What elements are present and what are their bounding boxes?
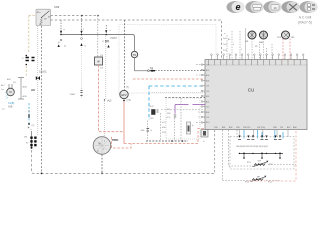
svg-text:A5: A5	[228, 38, 230, 41]
connector bowtie	[36, 76, 40, 80]
svg-text:(7): (7)	[126, 86, 129, 89]
wire branch x160.5	[160, 113, 162, 141]
svg-text:C08: C08	[273, 127, 276, 129]
svg-text:A6: A6	[31, 88, 35, 92]
svg-text:C04: C04	[214, 127, 217, 129]
svg-text:CU: CU	[248, 88, 255, 93]
svg-text:e: e	[235, 2, 240, 12]
wire red top feed	[133, 78, 205, 80]
connector pair upper-left	[22, 55, 35, 66]
svg-text:4: 4	[233, 44, 234, 46]
wire CU ground return	[214, 130, 216, 173]
CU bottom pin stubs	[240, 130, 289, 138]
svg-text:PC4: PC4	[268, 182, 272, 184]
svg-text:(P1): (P1)	[167, 117, 171, 119]
labels near CU feed	[223, 38, 227, 52]
svg-text:(O): (O)	[100, 55, 103, 57]
svg-text:B03: B03	[206, 80, 209, 82]
svg-text:C99: C99	[54, 5, 60, 9]
wire ground bus bottom	[32, 150, 215, 173]
thermistor MP	[245, 176, 272, 184]
svg-text:(3): (3)	[13, 82, 16, 84]
wire dark dashed mid to CU	[165, 97, 205, 99]
wire branch x181	[180, 98, 182, 141]
junction drop x61	[58, 20, 66, 47]
toolbar button e	[227, 1, 245, 13]
sensor U03 box	[201, 130, 208, 144]
node EPV out	[123, 100, 125, 102]
svg-text:PC2: PC2	[269, 164, 273, 166]
svg-text:TN: TN	[133, 53, 137, 57]
svg-text:V59: V59	[258, 161, 261, 163]
wire fan to ground bus	[101, 155, 103, 173]
svg-text:C05: C05	[206, 117, 209, 119]
svg-text:(A)5: (A)5	[107, 100, 112, 103]
svg-text:(2): (2)	[32, 125, 35, 127]
svg-text:C09 C12: C09 C12	[243, 127, 250, 129]
svg-text:A.C Grill: A.C Grill	[299, 16, 312, 20]
svg-text:M: M	[99, 143, 101, 146]
wire grey dotted to fan	[105, 36, 107, 99]
svg-text:5w1: 5w1	[223, 38, 226, 40]
svg-text:A1A: A1A	[23, 86, 28, 89]
CU bottom pin labels	[214, 127, 296, 129]
toolbar button print	[246, 1, 264, 13]
CU control unit box U1	[205, 60, 307, 130]
wire thermistor leads	[222, 130, 296, 181]
dotted box mid	[166, 98, 200, 139]
svg-text:A01: A01	[206, 100, 209, 103]
svg-text:Tw0: Tw0	[223, 44, 226, 46]
wire mid bottom bus	[146, 140, 188, 142]
svg-text:A1B: A1B	[23, 95, 28, 98]
svg-text:B05: B05	[206, 70, 209, 72]
motor G1	[245, 31, 256, 43]
svg-text:B08: B08	[293, 127, 296, 129]
svg-text:(7)6: (7)6	[127, 99, 132, 102]
fuse F30 junction	[103, 25, 118, 48]
relay W box	[95, 16, 104, 70]
solenoid valve EPV	[120, 90, 128, 98]
svg-text:C07 (2 b): C07 (2 b)	[257, 127, 265, 129]
svg-text:(2)(A)4: (2)(A)4	[110, 37, 118, 40]
harness dashed box	[230, 137, 294, 170]
toolbar button close	[282, 1, 300, 13]
motor G2	[259, 31, 268, 44]
wire dark dashed 63 to CU	[150, 69, 206, 72]
capacitor frame A1	[18, 78, 27, 100]
svg-text:A04: A04	[206, 74, 209, 77]
wire G1 G2 drops	[252, 39, 272, 60]
node 63	[148, 70, 150, 72]
svg-text:T-B07: T-B07	[70, 94, 77, 96]
svg-text:C06: C06	[236, 127, 239, 129]
svg-text:M: M	[9, 90, 11, 94]
CU bottom cyan stubs	[244, 130, 283, 139]
wire dotted frame	[119, 25, 216, 94]
wire stubs into CU left pins	[196, 65, 205, 123]
svg-text:19: 19	[273, 6, 277, 10]
wire cyan thick to CU	[149, 85, 205, 87]
CU top pin row	[205, 64, 307, 66]
relay K1	[36, 9, 51, 26]
svg-text:M5: M5	[255, 46, 258, 48]
svg-text:PRB4: PRB4	[112, 139, 119, 142]
svg-text:PC3: PC3	[245, 182, 249, 184]
toolbar button list	[300, 1, 318, 13]
svg-text:B02: B02	[229, 127, 232, 129]
svg-text:(H): (H)	[24, 137, 27, 139]
svg-text:C02: C02	[206, 91, 209, 93]
svg-text:(RA27-5): (RA27-5)	[298, 21, 312, 25]
svg-text:C11: C11	[280, 127, 283, 129]
svg-text:A/C: A/C	[1, 84, 5, 87]
wire red EPV to CU via bottom	[124, 101, 205, 144]
svg-text:C06 2(O)8 C06 C05 2(O)3 2(O): C06 2(O)8 C06 C05 2(O)3 2(O)1 (O)2	[236, 146, 268, 148]
wire dashed supply to EPV	[124, 20, 126, 90]
condenser fan motor PRB4	[93, 137, 119, 155]
resistor N52	[148, 106, 159, 141]
wire dotted x81	[81, 47, 83, 88]
svg-text:B01: B01	[222, 127, 225, 129]
wire cyan left	[28, 103, 34, 127]
wire red W to fan box	[99, 65, 112, 132]
wire grey from relay pin 30	[51, 15, 99, 17]
junction drop x81.5	[80, 16, 86, 48]
toolbar button save	[264, 1, 282, 13]
svg-text:B07: B07	[287, 127, 290, 129]
CU left pin stubs	[202, 65, 206, 123]
wire grey dashed to CU pin	[161, 109, 205, 111]
svg-text:5: 5	[241, 49, 242, 51]
svg-text:1w: 1w	[1, 89, 4, 91]
connector T-B07	[70, 88, 83, 98]
thermistor V59	[247, 161, 273, 167]
wire top drops left	[227, 31, 240, 60]
svg-text:B04: B04	[206, 112, 209, 114]
wire salmon right return	[247, 131, 296, 181]
svg-text:A5B: A5B	[8, 106, 13, 109]
wire bus solid to TN	[61, 35, 135, 52]
svg-text:B10: B10	[206, 122, 209, 124]
connector stack H	[24, 127, 37, 149]
labels above CU	[224, 33, 258, 51]
svg-text:PU3: PU3	[223, 50, 227, 52]
wire purple to CU	[175, 104, 205, 106]
svg-text:C01: C01	[206, 86, 209, 88]
svg-text:W: W	[97, 60, 100, 64]
svg-text:C03: C03	[206, 64, 209, 66]
compressor clutch M	[1, 78, 16, 111]
wire dotted frame bottom	[119, 92, 205, 94]
wire dotted mid to CU	[152, 92, 205, 94]
wire beige feed to relay pin 87a	[26, 16, 36, 77]
below CU connector grid	[236, 136, 283, 159]
resistor U6	[187, 122, 195, 134]
connector UA	[141, 129, 153, 133]
wire relay 86 down	[41, 26, 43, 173]
wire grey from relay pin 87 to CU	[51, 20, 222, 60]
svg-text:B09: B09	[206, 96, 209, 98]
svg-text:(O): (O)	[100, 68, 103, 70]
thermal switch TN	[131, 51, 137, 57]
svg-text:C10: C10	[206, 106, 209, 108]
wire purple drop	[174, 105, 176, 141]
node labels P1 R05	[167, 109, 172, 119]
svg-text:C4(V)1: C4(V)1	[39, 71, 47, 74]
wire red pair TK to CU	[283, 39, 290, 60]
wire TN to node 63	[135, 58, 148, 71]
svg-text:EPV: EPV	[121, 93, 126, 97]
sensor TK	[277, 31, 295, 39]
CU top terminal stubs	[211, 56, 303, 60]
wire relay 85 dotted down	[37, 26, 39, 135]
svg-text:PC1: PC1	[247, 162, 251, 164]
